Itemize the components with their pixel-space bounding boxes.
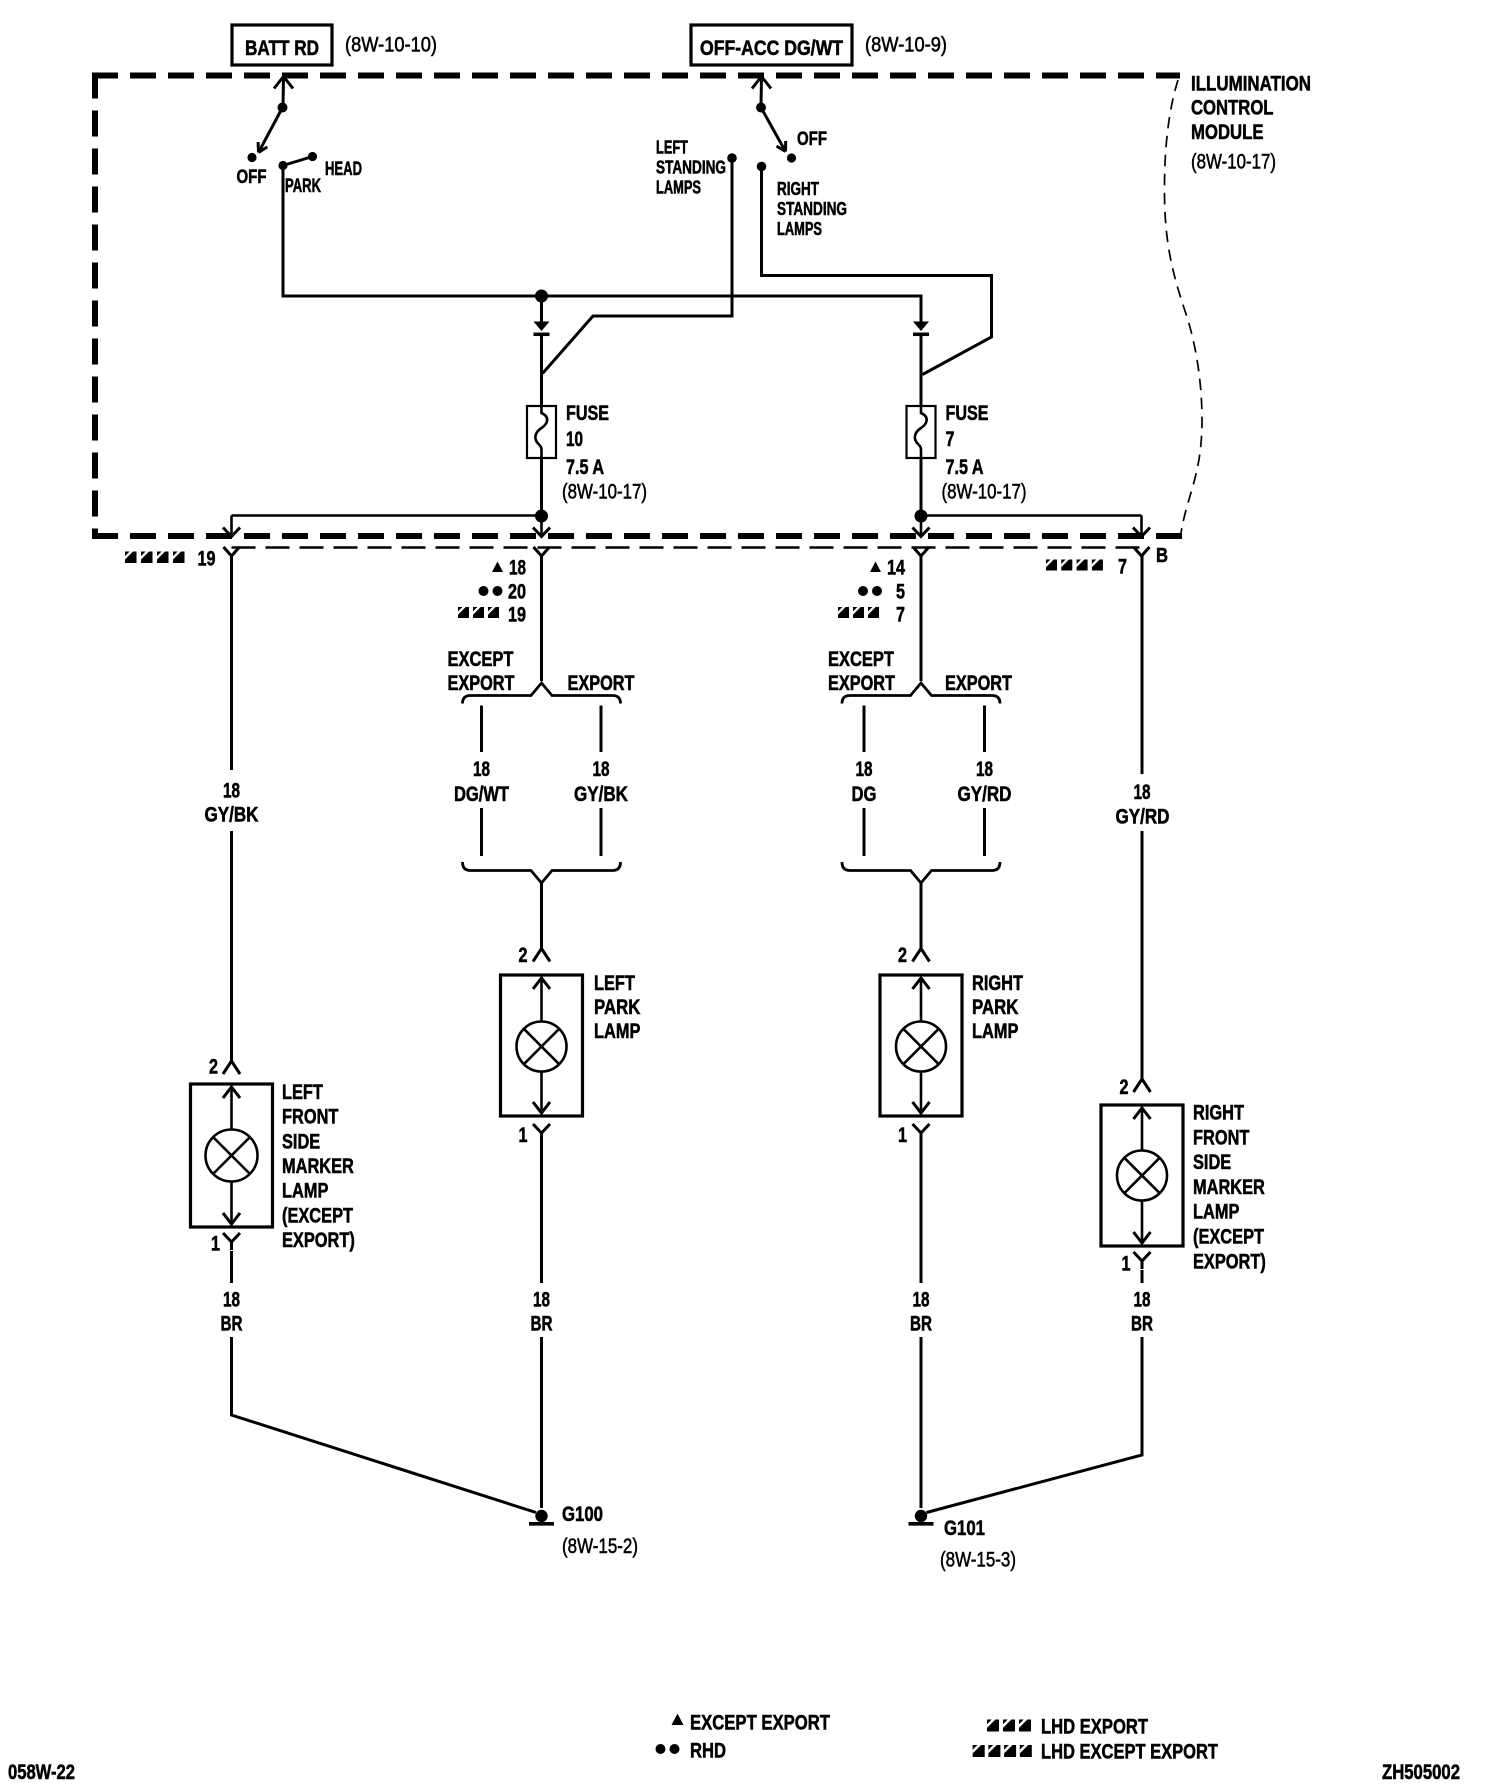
svg-text:2: 2 — [209, 1056, 218, 1079]
svg-text:2: 2 — [1120, 1076, 1129, 1099]
svg-text:EXPORT): EXPORT) — [1193, 1250, 1266, 1273]
svg-text:GY/BK: GY/BK — [205, 804, 259, 827]
svg-text:(8W-10-17): (8W-10-17) — [942, 481, 1027, 504]
svg-text:(8W-10-17): (8W-10-17) — [1191, 151, 1276, 174]
svg-text:SIDE: SIDE — [1193, 1151, 1231, 1174]
svg-text:BR: BR — [910, 1313, 932, 1336]
svg-text:7: 7 — [1118, 556, 1127, 579]
svg-text:5: 5 — [896, 581, 905, 604]
svg-text:(8W-10-10): (8W-10-10) — [345, 34, 437, 57]
svg-text:EXCEPT EXPORT: EXCEPT EXPORT — [690, 1712, 830, 1735]
svg-text:(EXCEPT: (EXCEPT — [1193, 1226, 1264, 1249]
svg-text:7.5 A: 7.5 A — [946, 456, 984, 479]
svg-text:EXPORT: EXPORT — [945, 672, 1012, 695]
svg-text:18: 18 — [593, 758, 610, 781]
svg-text:EXPORT): EXPORT) — [282, 1229, 355, 1252]
svg-text:OFF: OFF — [237, 167, 267, 188]
svg-text:STANDING: STANDING — [656, 158, 726, 178]
svg-text:LAMP: LAMP — [972, 1020, 1018, 1043]
svg-text:MODULE: MODULE — [1191, 121, 1264, 144]
svg-text:EXPORT: EXPORT — [828, 672, 895, 695]
svg-text:LEFT: LEFT — [656, 138, 688, 158]
svg-text:2: 2 — [898, 944, 907, 967]
svg-text:1: 1 — [1122, 1253, 1131, 1276]
svg-text:GY/BK: GY/BK — [574, 783, 628, 806]
svg-text:7: 7 — [946, 428, 955, 451]
svg-text:OFF: OFF — [797, 129, 827, 150]
svg-text:RHD: RHD — [690, 1740, 726, 1763]
svg-text:LAMPS: LAMPS — [777, 219, 822, 239]
svg-text:14: 14 — [887, 557, 905, 580]
svg-text:10: 10 — [566, 428, 583, 451]
svg-text:(8W-15-2): (8W-15-2) — [562, 1535, 638, 1558]
svg-text:18: 18 — [856, 758, 873, 781]
svg-text:RIGHT: RIGHT — [972, 972, 1023, 995]
svg-text:18: 18 — [1134, 1289, 1151, 1312]
svg-text:B: B — [1156, 545, 1168, 567]
svg-text:GY/RD: GY/RD — [958, 783, 1012, 806]
svg-text:18: 18 — [1134, 781, 1151, 804]
svg-text:18: 18 — [913, 1289, 930, 1312]
svg-text:BATT RD: BATT RD — [245, 37, 319, 60]
svg-text:18: 18 — [223, 1289, 240, 1312]
svg-text:(EXCEPT: (EXCEPT — [282, 1204, 353, 1227]
svg-text:RIGHT: RIGHT — [1193, 1102, 1244, 1125]
svg-text:FUSE: FUSE — [566, 402, 609, 425]
svg-text:7: 7 — [896, 604, 905, 627]
svg-text:18: 18 — [976, 758, 993, 781]
svg-text:18: 18 — [223, 780, 240, 803]
svg-text:EXPORT: EXPORT — [568, 672, 635, 695]
svg-text:OFF-ACC DG/WT: OFF-ACC DG/WT — [700, 37, 843, 60]
svg-text:DG/WT: DG/WT — [454, 783, 509, 806]
svg-text:CONTROL: CONTROL — [1191, 97, 1274, 120]
svg-text:EXPORT: EXPORT — [448, 672, 515, 695]
svg-text:SIDE: SIDE — [282, 1130, 320, 1153]
svg-text:LAMPS: LAMPS — [656, 178, 701, 198]
svg-text:7.5 A: 7.5 A — [566, 456, 604, 479]
svg-text:BR: BR — [221, 1313, 243, 1336]
svg-text:FRONT: FRONT — [1193, 1126, 1250, 1149]
svg-text:ILLUMINATION: ILLUMINATION — [1191, 73, 1311, 96]
svg-text:DG: DG — [852, 783, 877, 806]
svg-text:LAMP: LAMP — [1193, 1201, 1239, 1224]
svg-text:BR: BR — [1131, 1313, 1153, 1336]
svg-text:RIGHT: RIGHT — [777, 179, 819, 199]
svg-text:ZH505002: ZH505002 — [1382, 1761, 1460, 1784]
svg-text:MARKER: MARKER — [1193, 1176, 1265, 1199]
svg-text:LEFT: LEFT — [282, 1081, 323, 1104]
svg-text:PARK: PARK — [285, 176, 321, 197]
svg-text:19: 19 — [508, 604, 526, 627]
svg-text:058W-22: 058W-22 — [8, 1761, 75, 1784]
svg-text:1: 1 — [898, 1124, 907, 1147]
svg-text:1: 1 — [519, 1124, 528, 1147]
svg-text:LAMP: LAMP — [282, 1180, 328, 1203]
svg-text:PARK: PARK — [972, 996, 1018, 1019]
svg-text:G100: G100 — [562, 1503, 603, 1526]
svg-text:19: 19 — [198, 548, 216, 571]
svg-text:LEFT: LEFT — [594, 972, 635, 995]
svg-text:20: 20 — [508, 581, 526, 604]
svg-text:GY/RD: GY/RD — [1116, 806, 1170, 829]
svg-text:2: 2 — [519, 944, 528, 967]
svg-text:EXCEPT: EXCEPT — [448, 648, 514, 671]
svg-text:LHD EXPORT: LHD EXPORT — [1041, 1716, 1148, 1739]
svg-text:PARK: PARK — [594, 996, 640, 1019]
svg-text:LHD EXCEPT EXPORT: LHD EXCEPT EXPORT — [1041, 1741, 1218, 1764]
svg-text:STANDING: STANDING — [777, 199, 847, 219]
svg-text:BR: BR — [531, 1313, 553, 1336]
svg-text:1: 1 — [211, 1233, 220, 1256]
svg-text:HEAD: HEAD — [325, 159, 362, 180]
svg-text:FRONT: FRONT — [282, 1106, 339, 1129]
svg-text:MARKER: MARKER — [282, 1155, 354, 1178]
svg-text:18: 18 — [509, 557, 526, 580]
svg-text:(8W-10-17): (8W-10-17) — [562, 481, 647, 504]
svg-text:(8W-10-9): (8W-10-9) — [865, 34, 947, 57]
svg-text:G101: G101 — [944, 1517, 985, 1540]
svg-text:18: 18 — [533, 1289, 550, 1312]
svg-text:FUSE: FUSE — [946, 402, 989, 425]
svg-text:(8W-15-3): (8W-15-3) — [940, 1549, 1016, 1572]
svg-text:LAMP: LAMP — [594, 1020, 640, 1043]
svg-text:EXCEPT: EXCEPT — [828, 648, 894, 671]
svg-text:18: 18 — [473, 758, 490, 781]
